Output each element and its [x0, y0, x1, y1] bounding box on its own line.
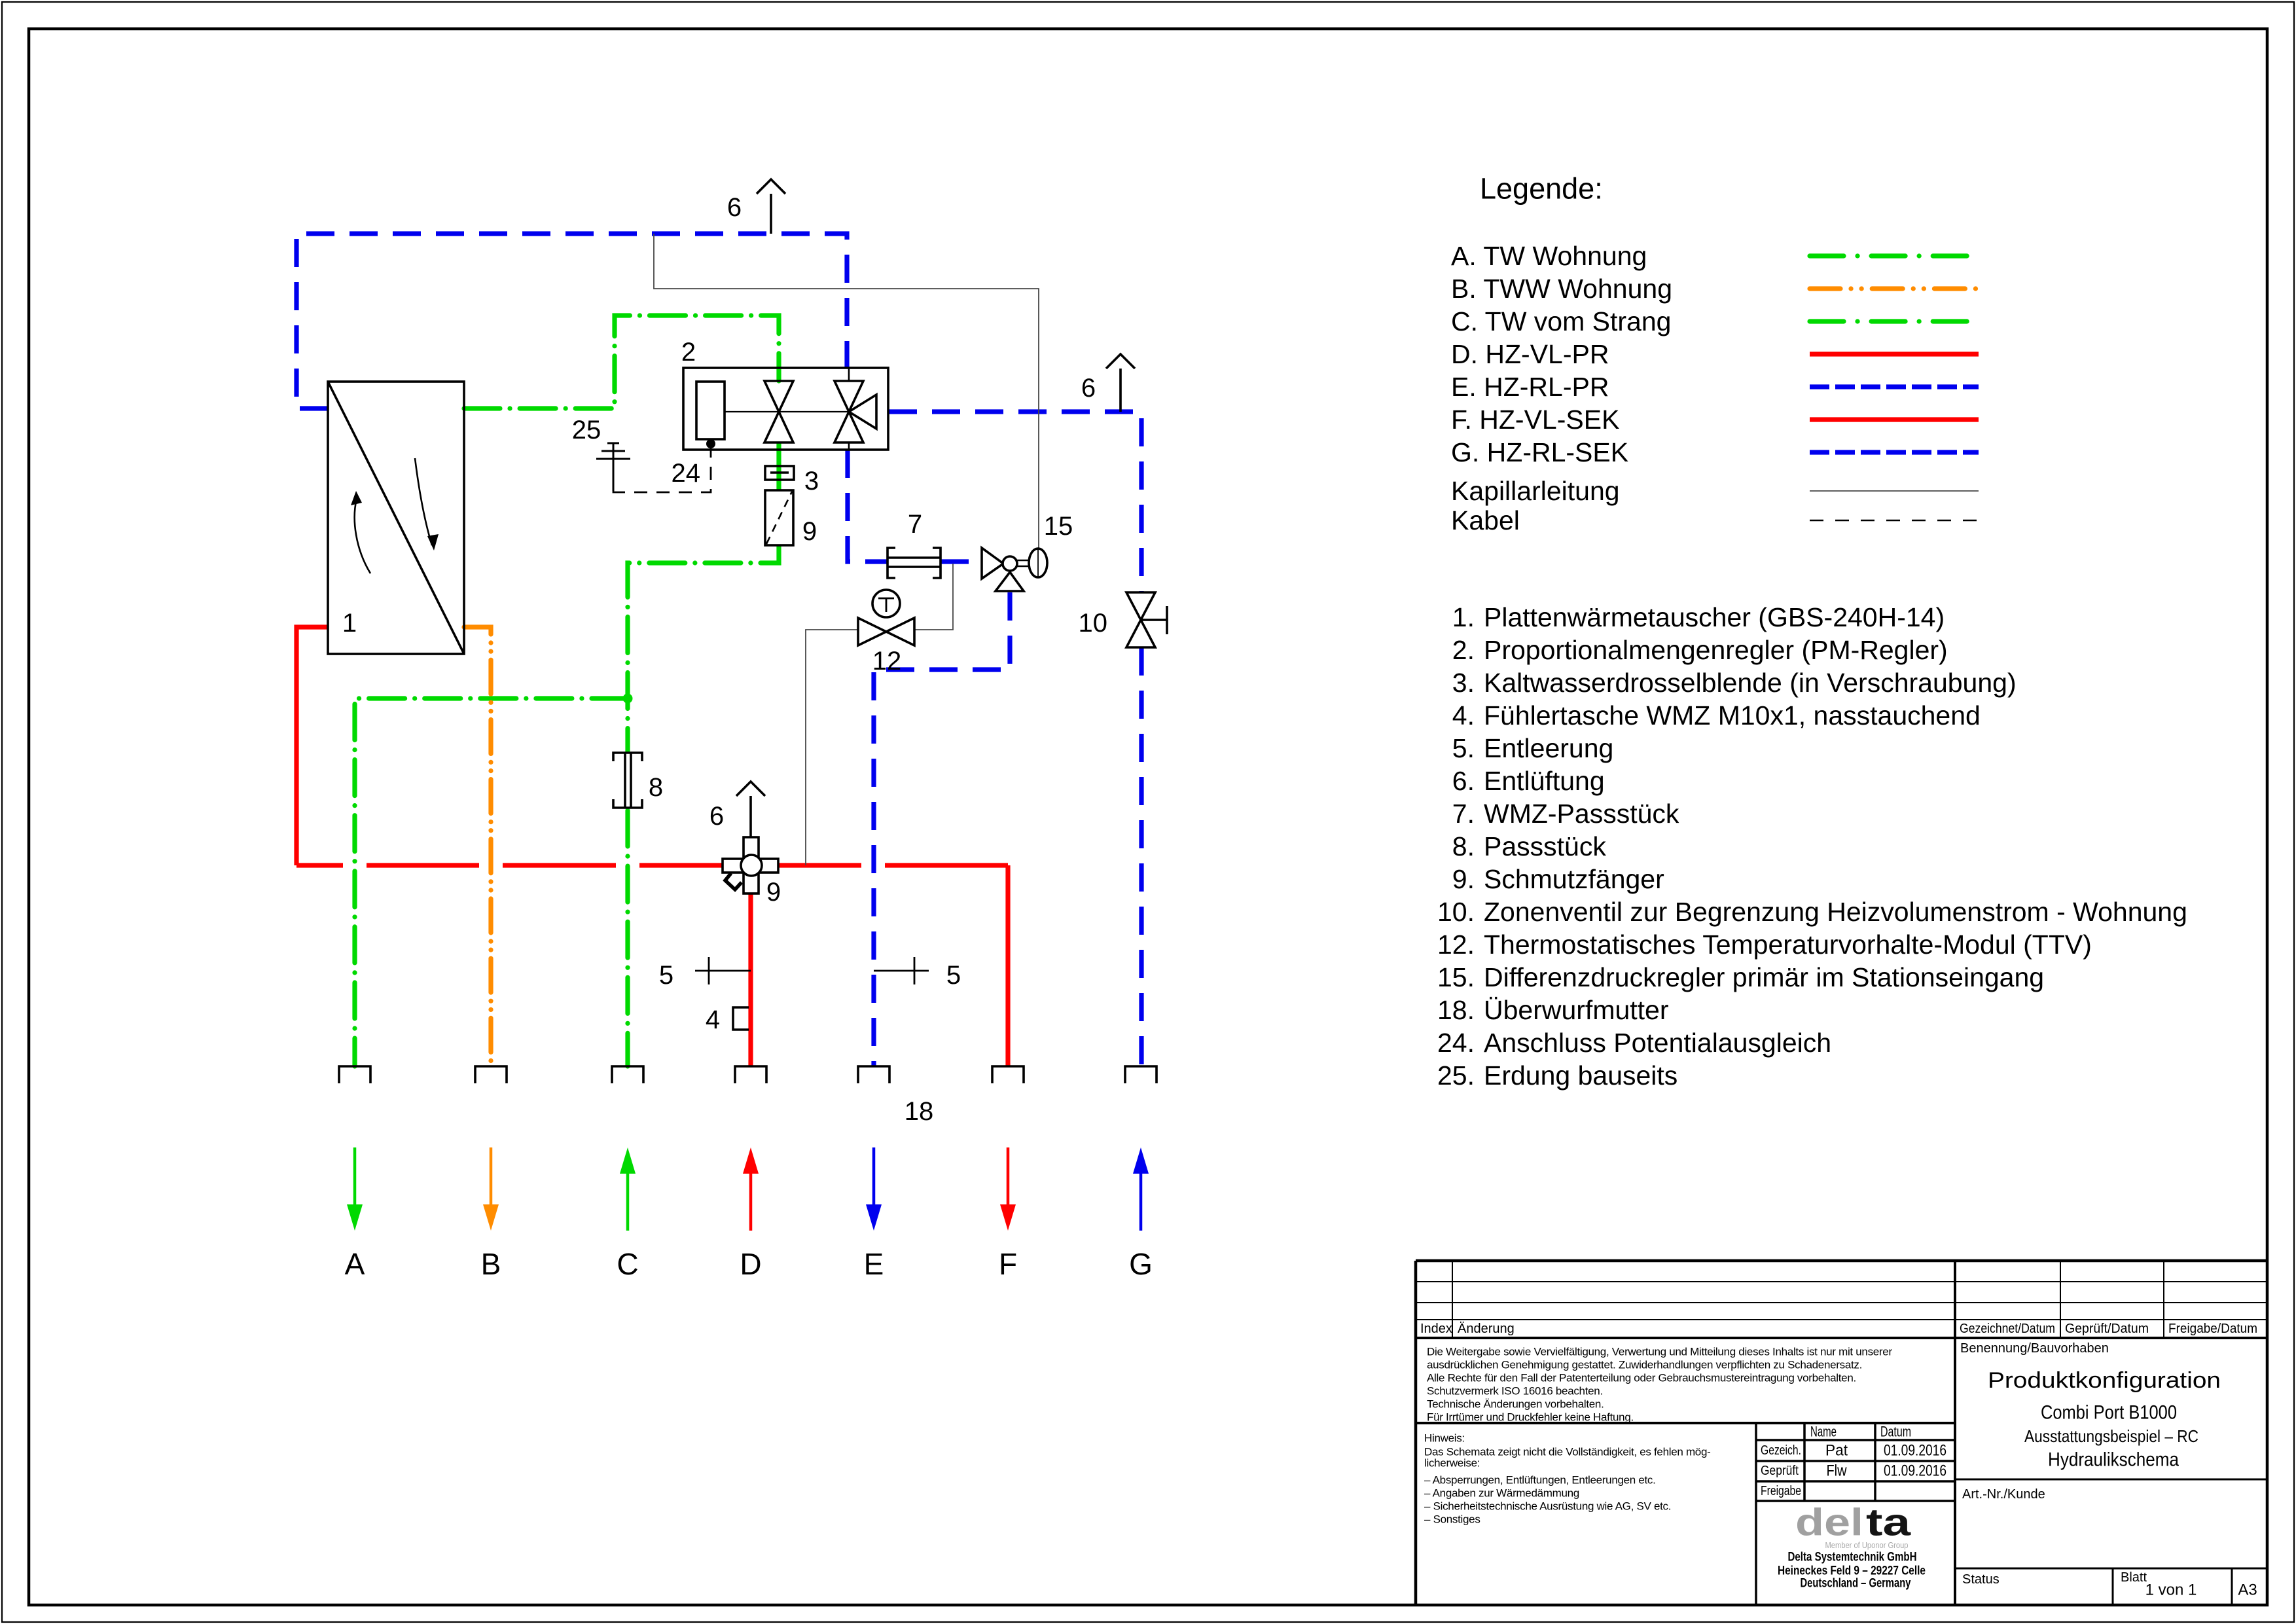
svg-text:D. HZ-VL-PR: D. HZ-VL-PR	[1451, 339, 1609, 369]
valve V2 three-way in PM-Regler	[834, 381, 876, 442]
connection bracket G	[1125, 1066, 1157, 1083]
vent chevron above drain fitting	[736, 782, 765, 796]
wire blue to zone valve	[889, 412, 1141, 592]
DP regulator bottom cone	[996, 572, 1024, 591]
svg-text:12: 12	[872, 647, 902, 676]
bracket bottom of spool 8	[613, 799, 642, 808]
legend swatch Kapillarleitung thin	[1810, 490, 1979, 492]
svg-text:25.: 25.	[1437, 1060, 1475, 1091]
svg-text:ta: ta	[1866, 1502, 1911, 1544]
svg-text:Kabel: Kabel	[1451, 505, 1520, 535]
svg-text:Änderung: Änderung	[1458, 1322, 1515, 1336]
name table bottom rule	[1756, 1500, 1955, 1502]
wire blue below PM-Regler to WMZ-Passstueck	[848, 450, 888, 562]
svg-text:01.09.2016: 01.09.2016	[1884, 1462, 1946, 1480]
name-datum table left edge	[1755, 1423, 1757, 1605]
svg-text:1 von 1: 1 von 1	[2145, 1581, 2197, 1599]
svg-text:7.: 7.	[1452, 799, 1475, 829]
DP regulator link lower	[1017, 566, 1029, 567]
svg-text:Blatt: Blatt	[2121, 1570, 2147, 1585]
svg-text:12.: 12.	[1437, 929, 1475, 960]
svg-text:B. TWW Wohnung: B. TWW Wohnung	[1451, 274, 1672, 304]
sensor pocket 4 (Fühlertasche)	[733, 1007, 749, 1030]
svg-text:Plattenwärmetauscher (GBS-240H: Plattenwärmetauscher (GBS-240H-14)	[1484, 602, 1945, 632]
svg-text:Produktkonfiguration: Produktkonfiguration	[1988, 1368, 2221, 1393]
ground 25 (Erdung bauseits)	[613, 442, 615, 491]
heat exchanger 1 (Plattenwärmetauscher)	[328, 382, 464, 654]
flow arrow A	[353, 1147, 357, 1204]
wire internal link in PM-Regler	[725, 411, 849, 412]
svg-text:D: D	[740, 1247, 761, 1281]
svg-text:– Sicherheitstechnische Ausrüs: – Sicherheitstechnische Ausrüstung wie A…	[1424, 1500, 1671, 1513]
legend swatch D red solid	[1810, 352, 1979, 356]
svg-text:8: 8	[649, 773, 663, 802]
title block index row bottom	[1416, 1337, 2267, 1339]
freigabe column divider	[2163, 1261, 2164, 1338]
svg-text:Die Weitergabe sowie Vervielfä: Die Weitergabe sowie Vervielfältigung, V…	[1427, 1346, 1892, 1358]
wire blue DP regulator to strand E	[874, 592, 1010, 1066]
flow arrow up inside heat exchanger	[355, 496, 370, 573]
legend swatch E blue dashed	[1810, 384, 1979, 389]
svg-text:Hydraulikschema: Hydraulikschema	[2048, 1449, 2179, 1471]
wire capillary TTV to blue pipe	[914, 564, 953, 630]
svg-text:– Sonstiges: – Sonstiges	[1424, 1513, 1480, 1526]
vent 6 on blue zone header	[1119, 369, 1122, 412]
flow arrow C	[626, 1174, 630, 1231]
svg-text:Ausstattungsbeispiel – RC: Ausstattungsbeispiel – RC	[2024, 1426, 2198, 1446]
svg-text:18.: 18.	[1437, 995, 1475, 1025]
svg-text:del: del	[1795, 1502, 1863, 1544]
datum column divider	[1874, 1423, 1876, 1501]
svg-text:Freigabe/Datum: Freigabe/Datum	[2168, 1322, 2257, 1336]
proportional flow controller 2 (PM-Regler)	[683, 368, 888, 450]
wire red strand D down	[748, 893, 753, 1066]
spool 8 right line	[630, 753, 632, 808]
TTV thermostat head	[872, 590, 900, 617]
wire green branch to strand A down	[355, 698, 628, 1066]
svg-text:24: 24	[672, 459, 701, 488]
bracket top of spool 8	[613, 753, 642, 761]
flow arrow G	[1139, 1174, 1143, 1231]
svg-text:Heineckes Feld 9 – 29227 Celle: Heineckes Feld 9 – 29227 Celle	[1778, 1564, 1926, 1578]
svg-text:2.: 2.	[1452, 635, 1475, 665]
svg-text:C: C	[617, 1247, 638, 1281]
geprueft column divider	[2060, 1261, 2061, 1338]
wire 3-way stem bottom in PM-Regler	[848, 442, 850, 450]
connection bracket A	[339, 1066, 370, 1083]
connection bracket F	[992, 1066, 1024, 1083]
svg-text:Freigabe: Freigabe	[1761, 1484, 1801, 1498]
wire capillary from blue header to DP regulator	[654, 234, 1039, 553]
wire capillary red pipe to TTV valve	[806, 630, 858, 865]
svg-text:18: 18	[905, 1097, 934, 1126]
svg-text:Fühlertasche WMZ M10x1, nassta: Fühlertasche WMZ M10x1, nasstauchend	[1484, 700, 1981, 731]
svg-text:4.: 4.	[1452, 700, 1475, 731]
svg-text:Flw: Flw	[1827, 1462, 1848, 1480]
WMZ spool lower line	[888, 566, 941, 568]
svg-text:Pat: Pat	[1825, 1442, 1848, 1460]
spool piece 8 (Passstück)	[622, 753, 633, 808]
svg-text:Status: Status	[1962, 1572, 2000, 1587]
orifice 3 (Kaltwasserdrosselblende)	[765, 466, 794, 480]
svg-text:5: 5	[946, 961, 961, 990]
legend swatch Kabel dashed	[1810, 520, 1979, 522]
title block left edge	[1414, 1261, 1418, 1605]
wire green strainer to Passstueck	[628, 545, 779, 753]
svg-text:ausdrücklichen Genehmigung ges: ausdrücklichen Genehmigung gestattet. Zu…	[1427, 1359, 1862, 1371]
svg-text:G: G	[1129, 1247, 1153, 1281]
flow arrow E	[872, 1147, 876, 1204]
svg-text:6: 6	[727, 193, 742, 222]
strainer 9 (Schmutzfänger)	[765, 490, 793, 545]
flow arrow B	[490, 1147, 493, 1204]
svg-text:1.: 1.	[1452, 602, 1475, 632]
wire blue WMZ to DP regulator	[941, 559, 982, 564]
TTV T-symbol bar	[878, 598, 894, 600]
svg-text:Entlüftung: Entlüftung	[1484, 766, 1605, 796]
svg-text:Überwurfmutter: Überwurfmutter	[1484, 995, 1669, 1025]
a3 cell divider	[2231, 1568, 2233, 1605]
svg-text:Für Irrtümer und Druckfehler k: Für Irrtümer und Druckfehler keine Haftu…	[1427, 1411, 1634, 1424]
DP regulator actuator diaphragm	[1029, 549, 1047, 577]
svg-text:Geprüft: Geprüft	[1761, 1464, 1799, 1478]
title block copyright bottom rule	[1416, 1422, 1955, 1424]
svg-text:Thermostatisches Temperaturvor: Thermostatisches Temperaturvorhalte-Modu…	[1484, 929, 2092, 960]
svg-text:Delta Systemtechnik GmbH: Delta Systemtechnik GmbH	[1788, 1551, 1917, 1564]
svg-text:B: B	[481, 1247, 501, 1281]
spool 8 left line	[624, 753, 626, 808]
svg-text:Geprüft/Datum: Geprüft/Datum	[2065, 1322, 2149, 1336]
svg-text:Benennung/Bauvorhaben: Benennung/Bauvorhaben	[1960, 1341, 2109, 1356]
svg-text:F: F	[999, 1247, 1017, 1281]
svg-text:Index: Index	[1420, 1322, 1452, 1336]
svg-text:A: A	[345, 1247, 365, 1281]
svg-text:– Angaben zur Wärmedämmung: – Angaben zur Wärmedämmung	[1424, 1487, 1579, 1500]
svg-text:Hinweis:: Hinweis:	[1424, 1432, 1465, 1445]
svg-text:01.09.2016: 01.09.2016	[1884, 1442, 1946, 1460]
zone valve stem	[1141, 619, 1167, 621]
svg-text:25: 25	[572, 416, 601, 444]
svg-text:6.: 6.	[1452, 766, 1475, 796]
wire red main horizontal (bridged at crossings)	[296, 863, 1008, 867]
svg-text:10: 10	[1079, 609, 1108, 638]
title block row line 1	[1416, 1281, 2267, 1282]
TTV T-symbol stem	[886, 598, 888, 612]
wire orange strand B from heat exchanger down	[464, 627, 491, 1066]
bracket left of WMZ spool	[888, 548, 895, 578]
svg-text:Schutzvermerk ISO 16016 beacht: Schutzvermerk ISO 16016 beachten.	[1427, 1385, 1603, 1398]
svg-text:– Absperrungen, Entlüftungen,: – Absperrungen, Entlüftungen, Entleerung…	[1424, 1474, 1656, 1487]
zone valve handle	[1166, 606, 1168, 634]
svg-text:Passstück: Passstück	[1484, 831, 1606, 861]
DP regulator ball	[1003, 556, 1017, 571]
wire blue strand G down	[1139, 647, 1143, 1066]
svg-text:2: 2	[681, 338, 696, 367]
flow arrow F	[1007, 1147, 1010, 1204]
svg-text:G. HZ-RL-SEK: G. HZ-RL-SEK	[1451, 437, 1628, 467]
wire 3-way stem top in PM-Regler	[848, 368, 850, 381]
svg-text:A. TW Wohnung: A. TW Wohnung	[1451, 241, 1647, 271]
name column divider	[1803, 1423, 1806, 1501]
name table row rule 2	[1756, 1480, 1955, 1483]
wire green strand C down	[625, 810, 630, 1066]
legend swatch G blue dashed	[1810, 450, 1979, 454]
svg-text:4: 4	[706, 1005, 720, 1034]
svg-text:9: 9	[766, 878, 781, 907]
wire cable earth to PM-Regler (24)	[613, 448, 711, 492]
svg-text:9: 9	[802, 517, 817, 546]
svg-text:Gezeichnet/Datum: Gezeichnet/Datum	[1960, 1322, 2055, 1336]
svg-text:Legende:: Legende:	[1480, 172, 1603, 206]
blatt cell divider	[2112, 1568, 2114, 1605]
valve V1 in PM-Regler	[764, 381, 793, 442]
zone valve body	[1126, 592, 1155, 647]
title block benennung bottom rule	[1955, 1479, 2267, 1481]
svg-text:C. TW vom Strang: C. TW vom Strang	[1451, 306, 1671, 336]
vent chevron top header	[757, 179, 785, 194]
wire red from heat exchanger down	[296, 627, 328, 865]
svg-text:15.: 15.	[1437, 962, 1475, 992]
svg-text:3: 3	[804, 467, 819, 496]
WMZ spool upper line	[888, 556, 941, 559]
vent chevron zone header	[1106, 354, 1135, 369]
svg-text:10.: 10.	[1437, 897, 1475, 927]
drain fitting 9 on red main (cross with circle)	[723, 859, 778, 873]
wire blue HZ-RL-PR from heat exchanger over top header to PM-Regler	[296, 234, 847, 408]
bracket right of WMZ spool	[933, 548, 941, 578]
title block row line 3	[1416, 1319, 2267, 1320]
svg-text:Proportionalmengenregler (PM-R: Proportionalmengenregler (PM-Regler)	[1484, 635, 1948, 665]
svg-text:Alle Rechte für den Fall der P: Alle Rechte für den Fall der Patentertei…	[1427, 1372, 1856, 1384]
DP regulator left cone	[982, 548, 1003, 579]
drain fitting ball	[741, 855, 762, 876]
node green junction at C strand	[623, 694, 633, 704]
svg-text:Datum: Datum	[1880, 1424, 1911, 1440]
svg-text:Kapillarleitung: Kapillarleitung	[1451, 476, 1620, 506]
drain 5 on strand E	[874, 970, 929, 972]
svg-text:E: E	[864, 1247, 884, 1281]
wire green heat exchanger to PM-Regler valve	[464, 316, 779, 408]
svg-text:Anschluss Potentialausgleich: Anschluss Potentialausgleich	[1484, 1028, 1831, 1058]
title block top edge	[1416, 1259, 2267, 1263]
svg-text:Technische Änderungen vorbehal: Technische Änderungen vorbehalten.	[1427, 1398, 1604, 1411]
wire red strand F down	[1005, 865, 1010, 1066]
drain 5 on strand D	[695, 970, 751, 972]
svg-text:Gezeich.: Gezeich.	[1761, 1443, 1801, 1458]
title block artnr bottom rule	[1955, 1568, 2267, 1570]
TTV valve body	[858, 618, 914, 645]
connection bracket D	[735, 1066, 766, 1083]
vent 6 above drain fitting	[749, 796, 752, 837]
connection bracket E	[858, 1066, 889, 1083]
svg-text:9.: 9.	[1452, 864, 1475, 894]
svg-text:Schmutzfänger: Schmutzfänger	[1484, 864, 1664, 894]
flow arrow down inside heat exchanger	[415, 458, 432, 545]
svg-text:6: 6	[709, 802, 724, 831]
svg-text:5.: 5.	[1452, 733, 1475, 763]
svg-text:3.: 3.	[1452, 668, 1475, 698]
svg-text:Entleerung: Entleerung	[1484, 733, 1613, 763]
strainer screen diagonal	[766, 492, 792, 544]
svg-text:15: 15	[1044, 512, 1073, 541]
svg-text:Art.-Nr./Kunde: Art.-Nr./Kunde	[1962, 1487, 2045, 1502]
connection bracket B	[475, 1066, 507, 1083]
wire green through orifice to strainer	[776, 442, 781, 490]
title block main divider	[1954, 1261, 1956, 1605]
svg-text:Combi Port B1000: Combi Port B1000	[2041, 1402, 2177, 1424]
svg-text:7: 7	[908, 510, 922, 539]
svg-text:Name: Name	[1810, 1424, 1837, 1440]
svg-text:24.: 24.	[1437, 1028, 1475, 1058]
drain fitting spout	[725, 873, 742, 890]
svg-text:Zonenventil zur Begrenzung Hei: Zonenventil zur Begrenzung Heizvolumenst…	[1484, 897, 2187, 927]
svg-text:1: 1	[342, 609, 357, 638]
svg-text:E. HZ-RL-PR: E. HZ-RL-PR	[1451, 372, 1609, 402]
svg-text:Erdung bauseits: Erdung bauseits	[1484, 1060, 1677, 1091]
node control dot in PM-Regler	[706, 439, 715, 448]
connection bracket C	[612, 1066, 643, 1083]
svg-text:5: 5	[659, 961, 673, 990]
svg-text:6: 6	[1081, 374, 1096, 403]
svg-text:8.: 8.	[1452, 831, 1475, 861]
vent 6 on blue top header	[770, 194, 772, 234]
legend swatch B orange dash-dot-dot	[1810, 286, 1979, 291]
name table header rule	[1756, 1439, 1955, 1441]
index column divider	[1452, 1261, 1453, 1338]
svg-text:F. HZ-VL-SEK: F. HZ-VL-SEK	[1451, 405, 1619, 435]
svg-text:licherweise:: licherweise:	[1424, 1457, 1480, 1470]
wire capillary through diaphragm	[1037, 549, 1039, 577]
legend swatch C green dash-dot	[1810, 319, 1979, 323]
name table row rule 1	[1756, 1460, 1955, 1462]
svg-text:Deutschland – Germany: Deutschland – Germany	[1801, 1577, 1911, 1591]
svg-text:Differenzdruckregler primär im: Differenzdruckregler primär im Stationse…	[1484, 962, 2044, 992]
title block row line 2	[1416, 1302, 2267, 1303]
svg-text:A3: A3	[2238, 1581, 2257, 1599]
spool piece 7 (WMZ-Passstück)	[888, 558, 941, 566]
svg-text:Member of Uponor Group: Member of Uponor Group	[1825, 1541, 1909, 1550]
svg-text:WMZ-Passstück: WMZ-Passstück	[1484, 799, 1679, 829]
legend swatch A green dash-dot	[1810, 253, 1979, 258]
flow arrow D	[749, 1174, 753, 1231]
DP regulator link upper	[1017, 560, 1029, 561]
legend swatch F red solid	[1810, 417, 1979, 422]
svg-text:Kaltwasserdrosselblende (in Ve: Kaltwasserdrosselblende (in Verschraubun…	[1484, 668, 2017, 698]
